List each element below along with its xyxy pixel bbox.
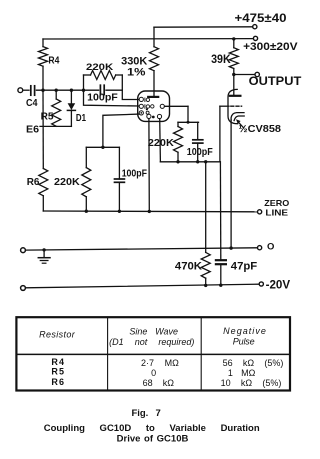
pin 2 — [139, 104, 143, 108]
wire grid lead — [219, 106, 221, 162]
svg-text:47pF: 47pF — [231, 260, 258, 272]
wire E6 — [40, 125, 71, 127]
terminal input — [18, 88, 23, 93]
wire +300 rail — [43, 38, 253, 40]
ground — [42, 248, 45, 251]
svg-text:(D1 not required): (D1 not required) — [109, 337, 194, 347]
resistor 220K (anode coupling) — [177, 122, 179, 126]
svg-text:1%: 1% — [127, 67, 146, 79]
capacitor C4 — [30, 86, 32, 95]
capacitor 100pF (grid leak) — [118, 147, 120, 179]
svg-text:Sine Wave: Sine Wave — [129, 327, 178, 337]
node grid-leak rail junction — [101, 146, 104, 149]
bottom pins — [147, 114, 151, 118]
svg-text:1 MΩ: 1 MΩ — [228, 368, 256, 378]
svg-text:Coupling GC10D to Variable Dur: Coupling GC10D to Variable Duration — [44, 423, 260, 434]
terminal +300 — [253, 36, 257, 40]
svg-text:Pulse: Pulse — [233, 336, 255, 346]
svg-text:0: 0 — [151, 368, 156, 378]
wire to pin3 — [103, 114, 139, 147]
svg-text:39K: 39K — [211, 54, 231, 66]
triode envelope — [228, 89, 238, 123]
capacitor 100pF (in series line) — [99, 85, 101, 94]
terminal zero line — [258, 210, 262, 214]
wire anode coupling top rail — [178, 121, 199, 123]
svg-text:Fig. 7: Fig. 7 — [131, 408, 160, 419]
node D1 to main wire — [70, 89, 73, 92]
wire +475 rail — [154, 26, 253, 28]
svg-text:220K: 220K — [86, 62, 113, 73]
svg-text:68 kΩ: 68 kΩ — [143, 378, 175, 388]
table frame — [16, 317, 290, 390]
wire to OUTPUT terminal — [234, 74, 255, 76]
node cathode to 0 line — [229, 246, 232, 249]
svg-text:100pF: 100pF — [87, 93, 118, 104]
wire R4 to input node — [42, 66, 44, 90]
arrow to cathode — [239, 123, 244, 128]
pin 1 — [139, 97, 143, 101]
node 470K to grid rail — [204, 160, 207, 163]
resistor 470K — [205, 162, 207, 253]
wire zero line — [43, 210, 257, 213]
svg-text:56 kΩ (5%): 56 kΩ (5%) — [223, 358, 284, 368]
svg-text:O: O — [267, 242, 274, 253]
resistor 39K — [233, 39, 235, 48]
node 39K to +300 rail — [232, 37, 235, 40]
wire right pin to coupling — [165, 105, 189, 107]
svg-text:+300±20V: +300±20V — [243, 41, 298, 53]
wire to pin2 — [84, 90, 139, 106]
node R4-main — [41, 89, 44, 92]
svg-text:330K: 330K — [121, 55, 147, 67]
svg-text:R4: R4 — [51, 357, 64, 367]
node anode/output — [232, 73, 235, 76]
triode grid — [220, 105, 229, 107]
right pin — [160, 104, 164, 108]
wire grid node rail — [160, 161, 220, 163]
svg-text:10 kΩ (5%): 10 kΩ (5%) — [221, 378, 282, 388]
wire 330K feed from +475 — [153, 27, 155, 47]
node coupling network input — [82, 89, 85, 92]
wire 330K to dekatron anode — [153, 71, 155, 97]
svg-text:-20V: -20V — [266, 279, 291, 291]
resistor 220K (coupling, with 100pF) — [83, 75, 85, 90]
node dekatron cathode to zero line — [148, 210, 151, 213]
node R5 to main wire — [55, 89, 58, 92]
node coupling feed junction — [187, 121, 190, 124]
capacitor 100pF (anode coupling) — [197, 122, 199, 140]
wire dekatron cathode to zero line — [148, 119, 150, 212]
wire -20V rail — [26, 284, 260, 288]
node 100pF to grid rail — [196, 160, 199, 163]
terminal -20V right — [259, 282, 263, 286]
wire cathode to 0 line — [230, 120, 232, 248]
svg-text:C4: C4 — [26, 97, 38, 109]
resistor 330K 1% — [150, 47, 159, 71]
dekatron anode bar — [148, 96, 158, 98]
svg-text:Drive of GC10B: Drive of GC10B — [117, 433, 189, 444]
terminal O — [258, 246, 262, 250]
triode cathode — [231, 113, 244, 120]
resistor 220K (grid leak) — [86, 146, 119, 148]
svg-text:E6: E6 — [26, 124, 39, 136]
svg-text:+475±40: +475±40 — [235, 13, 287, 25]
svg-text:Negative: Negative — [223, 326, 266, 336]
node 470K to -20V rail — [204, 284, 207, 287]
valve V1 half CV858 : anode lead — [233, 75, 235, 96]
svg-text:100pF: 100pF — [122, 168, 147, 179]
svg-text:R4: R4 — [48, 55, 59, 67]
terminal ground line left — [21, 248, 26, 253]
svg-text:220K: 220K — [148, 137, 174, 149]
svg-text:OUTPUT: OUTPUT — [249, 76, 302, 88]
triode anode plate — [230, 95, 241, 97]
svg-text:100pF: 100pF — [187, 147, 213, 158]
svg-text:Resistor: Resistor — [39, 329, 76, 339]
diode D1 — [70, 90, 72, 103]
resistor R6 — [42, 90, 44, 168]
svg-text:R6: R6 — [51, 377, 64, 387]
wire main signal — [36, 89, 98, 91]
wire to pin1 — [122, 75, 139, 100]
pin2 mark 10 — [144, 105, 146, 109]
svg-text:470K: 470K — [175, 260, 202, 272]
svg-text:220K: 220K — [54, 176, 80, 188]
pin 3 — [139, 111, 143, 115]
terminal OUTPUT — [255, 72, 259, 76]
node 47pF to -20V rail — [219, 284, 222, 287]
node 220K grid-leak to zero line — [85, 210, 88, 213]
svg-text:2·7 MΩ: 2·7 MΩ — [141, 358, 179, 368]
node 100pF grid-leak to zero line — [118, 210, 121, 213]
wire dekatron output pin down — [159, 119, 162, 162]
wire ground line — [26, 248, 258, 250]
svg-text:D1: D1 — [76, 112, 86, 124]
terminal +475 — [253, 25, 257, 29]
capacitor 47pF — [216, 259, 226, 261]
svg-text:½CV858: ½CV858 — [239, 123, 282, 135]
resistor R5 — [55, 90, 57, 99]
svg-text:R6: R6 — [27, 176, 40, 188]
svg-text:R5: R5 — [51, 367, 64, 377]
wire input to C4 — [23, 89, 29, 91]
resistor R4 — [42, 39, 44, 47]
pin1 mark 10 — [144, 98, 146, 102]
terminal -20V left — [21, 286, 26, 291]
node 220K to grid rail — [176, 160, 179, 163]
svg-text:LINE: LINE — [265, 207, 288, 217]
tube GC10D envelope — [138, 91, 170, 121]
